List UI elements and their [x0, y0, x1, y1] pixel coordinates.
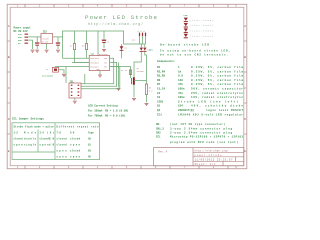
svg-text:C2: C2 — [157, 92, 161, 95]
svg-text:(not JST XH type connector): (not JST XH type connector) — [170, 122, 225, 126]
svg-text:power-strobe: power-strobe — [195, 154, 223, 157]
table divider vertical center — [54, 123, 56, 160]
svg-text:double: double — [24, 137, 37, 140]
svg-text:R1: R1 — [157, 66, 161, 69]
svg-text:1S4: 1S4 — [178, 105, 183, 108]
svg-text:R3,R5: R3,R5 — [157, 75, 165, 78]
svg-text:B: B — [244, 56, 246, 59]
svg-text:closed: closed — [40, 137, 50, 140]
wire IC1 left pin row3 crystal net — [55, 66, 89, 68]
svg-text:47u: 47u — [178, 92, 183, 95]
svg-text:closed: closed — [57, 143, 68, 146]
svg-text:LM2940 ADJ 5-volt LED regulato: LM2940 ADJ 5-volt LED regulator — [178, 112, 243, 116]
svg-text:R6: R6 — [157, 79, 161, 82]
svg-text:IC2: IC2 — [43, 30, 48, 33]
ground input — [31, 50, 35, 52]
svg-text:2SK4017: 2SK4017 — [137, 71, 145, 73]
svg-text:closed: closed — [70, 137, 81, 140]
title block divider row3 — [235, 157, 237, 162]
svg-text:program with MCU code (see tex: program with MCU code (see text) — [170, 140, 238, 144]
svg-text:Strobe flash mode + pulse: Strobe flash mode + pulse — [14, 126, 55, 129]
svg-text:be not to use CN2 terminals.: be not to use CN2 terminals. — [160, 53, 228, 57]
capacitor C1 — [102, 40, 106, 43]
svg-text:dB: dB — [49, 143, 55, 146]
svg-text:2-way 2.54mm connector plug: 2-way 2.54mm connector plug — [170, 131, 232, 135]
svg-text:(LXHL-PW09): (LXHL-PW09) — [190, 19, 214, 22]
svg-text:Microchip PG-12P100 + 12P070 +: Microchip PG-12P100 + 12P070 + 12P103 — [170, 135, 243, 139]
ground C4 — [56, 50, 60, 52]
svg-text:0.25W, 5%, carbon film: 0.25W, 5%, carbon film — [191, 65, 243, 69]
svg-text:11/05/2012 23:21:57: 11/05/2012 23:21:57 — [195, 158, 233, 162]
connector CN2 pins — [139, 33, 146, 37]
connector ICL pins — [71, 85, 79, 96]
svg-text:open: open — [14, 143, 24, 146]
table left bottom line — [12, 151, 55, 153]
svg-text:GND: GND — [97, 69, 100, 71]
svg-text:PB5/ADC0: PB5/ADC0 — [90, 57, 99, 60]
frame outer border — [7, 4, 247, 168]
resistor R4 body — [129, 70, 131, 75]
LED legend row 2 — [184, 23, 188, 28]
ground crystal — [62, 74, 66, 76]
wire ICL top feed right — [84, 74, 86, 84]
svg-text:78L05: 78L05 — [42, 38, 49, 41]
wire VCC rail — [63, 31, 146, 58]
ground C1 — [102, 49, 106, 51]
wire IC1 left pin row2 — [72, 61, 89, 63]
ground R5 — [145, 104, 149, 106]
svg-text:open: open — [40, 143, 50, 146]
wire LED1 cathode to Q1 drain — [134, 52, 141, 77]
frame row letters — [8, 25, 247, 153]
svg-text:1k: 1k — [178, 69, 182, 73]
wire Q1 source down — [133, 85, 135, 98]
wire IC1 vcc top pin — [97, 31, 99, 56]
LED legend row 1 — [184, 18, 188, 23]
svg-text:3-way 2.54mm connector plug: 3-way 2.54mm connector plug — [170, 126, 232, 130]
wire LED right branch to R5 — [145, 52, 147, 84]
svg-text:LED1: LED1 — [157, 100, 164, 103]
svg-text:D: D — [8, 118, 10, 121]
svg-text:closed: closed — [57, 137, 68, 140]
capacitor C4 — [56, 42, 60, 45]
svg-text:Components:: Components: — [157, 60, 176, 63]
svg-text:0.25W, 5%, carbon film: 0.25W, 5%, carbon film — [191, 69, 243, 73]
frame column ticks bottom — [25, 166, 228, 169]
wire C2 to ground — [36, 46, 38, 49]
svg-text:0.25W, 5%, carbon film: 0.25W, 5%, carbon film — [191, 82, 243, 86]
svg-text:R2,R4: R2,R4 — [157, 70, 165, 73]
wire C1 to ground — [103, 43, 105, 48]
svg-text:C: C — [244, 87, 246, 90]
svg-text:LED Current Setting: LED Current Setting — [88, 104, 118, 108]
svg-text:D1: D1 — [157, 105, 161, 108]
svg-text:(A): (A) — [47, 131, 55, 134]
connector CN1 pin names — [18, 33, 22, 45]
svg-text:On-board strobe LED: On-board strobe LED — [160, 42, 209, 46]
table right cells text — [57, 131, 95, 158]
components list — [157, 65, 243, 116]
title block divider row4 — [222, 161, 224, 166]
wire R2 bottom — [75, 50, 90, 63]
crystal X1 body — [53, 67, 59, 72]
wire R3 drop — [86, 31, 88, 44]
svg-text:LED:: LED: — [184, 14, 189, 17]
capacitor C2 stub wire — [36, 37, 38, 42]
svg-text:IC1: IC1 — [157, 113, 162, 116]
svg-text:Power LED Strobe: Power LED Strobe — [85, 14, 158, 21]
svg-text:D: D — [244, 118, 246, 121]
wire regulator out to rail — [53, 36, 63, 38]
frame row ticks left and right — [8, 41, 247, 134]
wire IC1 right pin1 to ISP bundle — [81, 58, 114, 84]
svg-text:1-2: 1-2 — [14, 131, 19, 134]
capacitor C1 stub — [103, 31, 105, 39]
svg-text:E: E — [8, 150, 10, 153]
svg-text:A: A — [8, 25, 10, 28]
svg-text:50V, ceramic capacitor: 50V, ceramic capacitor — [191, 87, 243, 91]
svg-text:PB2: PB2 — [104, 67, 107, 69]
svg-text:100u: 100u — [178, 96, 185, 99]
svg-text:A: A — [244, 25, 246, 28]
wire crystal to ground — [59, 70, 65, 74]
svg-text:3-4: 3-4 — [40, 131, 45, 134]
svg-text:C: C — [8, 87, 10, 90]
svg-text:5-6: 5-6 — [70, 131, 75, 134]
wire IC1 gnd — [99, 71, 101, 75]
ground regulator — [45, 50, 49, 52]
resistor R5 — [145, 84, 147, 95]
svg-text:40V, schottky diode: 40V, schottky diode — [191, 104, 243, 108]
wire IC1 right pin2 bundle — [81, 62, 117, 86]
wire IC1 left pin row1 — [63, 57, 90, 59]
svg-text:0.9: 0.9 — [178, 75, 183, 78]
wires CN2 pins down — [140, 36, 146, 44]
svg-text:closed: closed — [70, 149, 81, 152]
svg-text:Different repeat rate: Different repeat rate — [57, 126, 100, 129]
regulator IC2 box — [41, 34, 53, 44]
diode D1 — [120, 46, 124, 51]
svg-text:Rev. A: Rev. A — [159, 151, 168, 154]
ground pulldown — [117, 89, 121, 91]
wire Q1 source to R5 — [134, 80, 147, 82]
svg-text:Q1: Q1 — [157, 109, 161, 112]
table outer box — [12, 123, 100, 160]
frame column ticks top — [25, 4, 228, 7]
table left cells text — [14, 131, 55, 146]
svg-text:0.25W, 5%, carbon film: 0.25W, 5%, carbon film — [191, 78, 243, 82]
svg-text:Sheet: 1/1: Sheet: 1/1 — [195, 163, 217, 166]
title block outer box — [154, 148, 244, 166]
svg-text:CN1,3: CN1,3 — [156, 127, 164, 130]
wire LED1 anodes — [141, 44, 145, 47]
wire R5 to ground — [146, 95, 148, 103]
svg-text:(LXHL-PW12): (LXHL-PW12) — [190, 35, 214, 38]
svg-text:logic level MOSFET: logic level MOSFET — [206, 108, 243, 112]
connector CN1 pins — [25, 34, 29, 44]
wire R2 drop — [74, 31, 76, 44]
connector CN2 pin labels — [137, 30, 146, 32]
IC1 pin names — [90, 57, 107, 71]
svg-text:(LXHL-PW03): (LXHL-PW03) — [190, 30, 214, 33]
note LED current setting — [88, 104, 129, 118]
svg-text:ICL Jumper Settings: ICL Jumper Settings — [12, 117, 44, 121]
LED legend row 3 — [184, 28, 188, 33]
svg-text:100n: 100n — [178, 88, 185, 91]
svg-text:In using on-board strobe LED,: In using on-board strobe LED, — [160, 49, 230, 53]
svg-text:R7: R7 — [157, 83, 161, 86]
svg-text:120: 120 — [178, 79, 183, 82]
svg-text:closed: closed — [14, 137, 24, 140]
svg-text:LED1: LED1 — [148, 49, 154, 52]
frame column numbers — [17, 5, 238, 170]
title block inner vertical — [192, 148, 194, 166]
table left divider — [37, 130, 39, 153]
wire gate net — [110, 67, 131, 78]
svg-text:http://elm-chan.org/: http://elm-chan.org/ — [195, 150, 230, 153]
svg-text:16V, radial electrolytic: 16V, radial electrolytic — [191, 95, 243, 99]
svg-text:PB3/ADC3: PB3/ADC3 — [90, 61, 99, 64]
wire CN1 gnd down — [28, 40, 32, 49]
svg-text:(LXHL-PW01): (LXHL-PW01) — [190, 24, 214, 27]
ground IC1 — [98, 75, 102, 77]
resistor R2 — [73, 44, 75, 50]
svg-text:For 700mA: R5 = 0.9 (1W): For 700mA: R5 = 0.9 (1W) — [88, 114, 126, 118]
svg-text:PB0: PB0 — [104, 58, 107, 60]
svg-text:C3: C3 — [157, 96, 161, 99]
svg-text:PB1: PB1 — [104, 62, 107, 64]
svg-text:CSTLS4M00: CSTLS4M00 — [42, 74, 54, 77]
svg-text:single: single — [24, 143, 37, 146]
note CN2 usage — [160, 49, 230, 57]
capacitor C2 — [35, 42, 39, 45]
connector CN1 label text — [14, 26, 32, 33]
wire CN1 to regulator — [28, 36, 41, 38]
svg-text:ICL: ICL — [156, 136, 161, 139]
title block row lines — [193, 151, 244, 153]
svg-text:BW: BW — [49, 137, 55, 140]
IC1 box — [89, 56, 109, 71]
wire ICL gnd — [74, 98, 76, 100]
wire gnd drop with ground — [117, 62, 119, 87]
connector ICL box — [69, 83, 81, 98]
svg-text:CN2: CN2 — [156, 132, 161, 135]
svg-text:For 350mA: R5 = 1.8 (0.5W): For 350mA: R5 = 1.8 (0.5W) — [88, 109, 129, 113]
notes connector list — [156, 122, 243, 144]
LED legend row 4 — [184, 34, 188, 39]
svg-text:E: E — [244, 150, 246, 153]
svg-text:Type: Type — [88, 131, 94, 134]
svg-text:IN OUT: IN OUT — [42, 41, 49, 43]
LED LED1 (pair) — [140, 48, 147, 52]
capacitor C4 stub — [57, 37, 59, 42]
ground Q1 — [132, 99, 136, 101]
svg-text:B: B — [8, 56, 10, 59]
svg-text:IC1: IC1 — [91, 53, 96, 56]
svg-text:2SK4017(Q): 2SK4017(Q) — [178, 108, 195, 112]
wire IC1 right pin3 bundle — [81, 67, 120, 89]
wire ICL top feed — [65, 67, 67, 83]
svg-text:XH:: XH: — [156, 123, 161, 126]
svg-text:25V, radial electrolytic: 25V, radial electrolytic — [191, 91, 243, 95]
diode D1 wire — [121, 44, 123, 58]
ground ICL — [73, 101, 77, 103]
resistor R3 — [85, 44, 87, 50]
svg-text:7-8: 7-8 — [57, 131, 62, 134]
svg-text:http://elm-chan.org/: http://elm-chan.org/ — [88, 22, 143, 27]
wire C4 to ground — [57, 46, 59, 49]
wire regulator gnd — [46, 44, 48, 50]
svg-text:R4 1k: R4 1k — [121, 69, 128, 72]
transistor Q1 — [132, 77, 135, 85]
svg-text:0.25W, 5%, carbon film: 0.25W, 5%, carbon film — [191, 74, 243, 78]
svg-text:CN2: CN2 — [132, 39, 137, 42]
frame inner border — [10, 7, 244, 165]
wire R3 bottom — [86, 50, 88, 59]
ground C2 — [35, 50, 39, 52]
svg-text:C1,C4: C1,C4 — [157, 88, 165, 91]
svg-text:47k: 47k — [178, 82, 183, 86]
